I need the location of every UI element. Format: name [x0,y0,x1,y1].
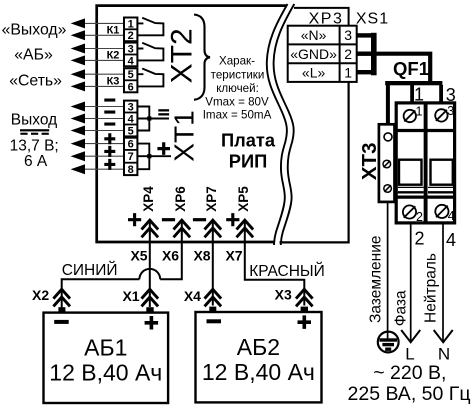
wire XP5 through board edge [244,220,246,244]
svg-text:12 В,40 Ач: 12 В,40 Ач [202,359,315,385]
svg-text:Плата: Плата [221,129,276,150]
wire to terminal output + 6 [84,143,125,145]
connector XP3 table [288,26,357,82]
svg-text:8: 8 [128,164,134,176]
svg-text:Х3: Х3 [275,287,292,303]
svg-text:3: 3 [128,43,134,55]
board break wavy line left [267,4,288,245]
XT3 screw middle [383,160,391,168]
arrow external connection output + 6 [71,139,85,149]
XT2 pair 5-6 [124,68,137,92]
svg-text:ХР4: ХР4 [141,186,156,212]
svg-text:5: 5 [128,125,134,137]
polarity + for XP5 [226,213,239,226]
battery AB1 [44,313,169,403]
connector arrow XP5 [237,220,254,229]
connector arrow X4 [205,289,222,298]
svg-text:К2: К2 [107,50,120,62]
polarity minus for pin 3 [104,99,115,102]
svg-text:ключей:: ключей: [216,82,259,95]
XT3 screw top [384,133,392,141]
wire drop to QF1 pin 1 [410,85,414,102]
wire drop to XT3 [386,85,390,125]
arrow external connection «Выход» NO [71,30,85,40]
wire phase from QF1 pin 2 [410,223,412,341]
svg-text:Imax = 50mA: Imax = 50mA [203,108,272,121]
AB2 plus terminal [301,307,308,313]
svg-text:СИНИЙ: СИНИЙ [62,261,118,279]
svg-text:5: 5 [128,69,134,81]
board Плата РИП outline (left/top/bottom edges) [97,6,287,242]
svg-text:12 В,40 Ач: 12 В,40 Ач [49,359,162,385]
polarity minus for pin 4 [104,111,115,114]
wire bracket pins 6,7,8 common [137,144,171,170]
svg-text:Vmax = 80V: Vmax = 80V [205,95,269,108]
AB1 minus terminal [58,307,65,313]
QF1 pole2 handle [431,160,453,185]
svg-text:Фаза: Фаза [392,290,409,326]
wire to terminal output + 8 [84,168,125,170]
svg-text:XS1: XS1 [356,10,389,27]
board break wavy line right [274,4,295,245]
wire to terminal «Выход» NC [84,22,125,24]
connector arrow X1 [142,289,159,298]
svg-text:X8: X8 [193,247,210,263]
svg-text:Х4: Х4 [184,288,201,304]
ground symbol (earth in circle) [378,332,399,353]
svg-text:К3: К3 [107,76,120,88]
svg-text:L: L [405,345,414,364]
svg-text:3: 3 [344,27,352,43]
svg-text:4: 4 [128,113,135,125]
polarity + for XP4 [128,213,141,226]
svg-text:ХР7: ХР7 [204,186,219,212]
svg-text:~ 220 В,: ~ 220 В, [373,362,446,384]
XT2 pair 1-2 [124,18,137,42]
DC symbol [20,129,49,131]
svg-text:Х2: Х2 [32,287,49,303]
svg-text:X6: X6 [162,247,179,263]
relay contact K1 (switch) [137,18,163,36]
XT1 group 3-5 [124,101,137,137]
svg-text:АБ1: АБ1 [84,335,127,361]
XT3 screw bottom [384,185,392,193]
svg-text:6: 6 [128,139,134,151]
arrow external connection «АБ» NC [71,44,85,54]
board outline right extension top to XP3 [294,8,349,26]
svg-text:К1: К1 [107,25,120,37]
wire bus above QF1 [385,81,442,85]
svg-text:N: N [438,345,450,364]
AB1 plus terminal [146,307,153,313]
polarity − for XP6 [162,218,175,221]
wire ground from XT3 [387,202,389,340]
wire neutral from QF1 pin 4 [442,223,444,341]
svg-text:«L»: «L» [302,65,326,81]
svg-text:X5: X5 [130,247,147,263]
wire to terminal «АБ» NO [84,59,125,61]
svg-text:«Сеть»: «Сеть» [9,72,62,89]
arrow external connection «Выход» NC [71,18,85,28]
polarity minus output (double bar) [158,109,169,111]
board outline right extension bottom to XP3 [280,81,349,242]
XT2 pair 3-4 [124,43,137,67]
svg-text:1: 1 [416,105,423,119]
arrow external connection «АБ» NO [71,55,85,65]
QF1 handle base lines [398,187,454,192]
svg-text:КРАСНЫЙ: КРАСНЫЙ [249,262,325,280]
svg-text:2: 2 [344,46,352,62]
relay contact K2 (switch) [137,43,163,61]
wire to terminal output + 7 [84,155,125,157]
svg-text:«Выход»: «Выход» [2,22,67,39]
svg-text:Нейтраль: Нейтраль [423,253,440,323]
arrow external connection output − 3 [71,102,85,112]
relay contact K3 (switch) [137,69,163,87]
svg-text:1: 1 [128,18,134,30]
wire to terminal «Выход» NO [84,34,125,36]
svg-text:QF1: QF1 [393,58,429,79]
wire red: XP5 to battery AB2 plus (X7 to X3) [245,244,304,306]
battery AB2 [196,312,322,402]
wire XP7 to battery AB2 minus (X4) [212,244,214,306]
wire to terminal output − 4 [84,118,125,120]
svg-text:2: 2 [128,30,134,42]
XS1 pin 3 prong [357,33,372,37]
svg-text:Харак-: Харак- [219,55,255,68]
XT1 group 6-8 [124,138,137,175]
svg-text:6 А: 6 А [24,153,48,170]
junction node pins 3-5 [147,116,151,120]
connector arrow XP6 [174,220,191,229]
polarity plus for pin 6 [104,133,115,144]
arrow N (neutral to mains) [434,330,453,342]
svg-text:«N»: «N» [301,27,327,43]
wire hop over X1 wire [139,269,160,279]
brace for XT2 characteristics [194,15,210,100]
arrow external connection output + 8 [71,164,85,174]
polarity minus for pin 5 [104,123,115,126]
svg-text:4: 4 [448,209,455,223]
wire to terminal output − 5 [84,130,125,132]
svg-text:ХТ3: ХТ3 [358,142,381,180]
svg-text:2: 2 [416,210,423,224]
wire drop to QF1 pin 3 [439,85,443,102]
polarity plus for pin 8 [104,159,115,170]
svg-text:6: 6 [128,81,134,93]
svg-text:ХР6: ХР6 [173,186,188,212]
svg-text:1: 1 [344,65,352,81]
svg-text:ХТ1: ХТ1 [169,110,200,161]
svg-text:13,7 В;: 13,7 В; [10,137,59,154]
QF1 pole1 bottom screw terminal 2 [403,205,416,218]
wire XP4 to battery AB1 plus (X1) [149,244,151,308]
wire blue: XP6 to battery AB1 minus (X6 to X2) [62,244,182,308]
arrow L (phase to mains) [401,330,420,342]
polarity plus for pin 7 [104,146,115,157]
AB2 minus terminal [209,307,216,313]
connector arrow XP7 [205,220,222,229]
svg-text:X7: X7 [225,247,242,263]
QF1 pole1 top screw terminal 1 [404,110,416,122]
svg-text:7: 7 [128,151,134,163]
wire XP4 through board edge [149,220,151,244]
QF1 pole2 top screw terminal 3 [435,109,447,121]
svg-text:ХР5: ХР5 [236,186,251,212]
svg-text:АБ2: АБ2 [237,334,280,360]
svg-text:РИП: РИП [229,150,267,171]
arrow external connection «Сеть» NC [71,69,85,79]
svg-text:225 ВА, 50 Гц: 225 ВА, 50 Гц [348,383,471,405]
connector arrow X3 [296,289,313,298]
wire XS1 to QF1 (mains feed) [376,54,430,83]
breaker QF1 body [396,103,454,223]
connector arrow XP4 [142,220,159,229]
junction node pins 6-8 [147,154,151,158]
svg-text:ХТ2: ХТ2 [166,28,199,83]
svg-text:4: 4 [446,230,456,250]
wire bracket pins 3,4,5 common [137,107,169,131]
QF1 pole1 handle [399,160,422,185]
wire XP6 through board edge [181,220,183,244]
svg-text:Заземление: Заземление [368,235,385,323]
wire to terminal «Сеть» NO [84,85,125,87]
wire XP7 through board edge [212,220,214,244]
wire to terminal «Сеть» NC [84,73,125,75]
XS1 pin 1 prong [357,70,372,74]
svg-text:Х1: Х1 [122,288,139,304]
svg-text:3: 3 [447,104,454,118]
arrow external connection «Сеть» NO [71,81,85,91]
connector XS1 body [371,33,377,76]
svg-text:Выход: Выход [11,111,57,128]
svg-text:«АБ»: «АБ» [14,47,53,64]
polarity plus output [157,142,170,155]
svg-text:«GND»: «GND» [290,46,337,62]
QF1 pole2 bottom screw terminal 4 [435,205,448,218]
svg-text:теристики: теристики [211,68,265,81]
terminal strip XT3 [379,124,395,202]
arrow external connection output − 4 [71,114,85,124]
svg-text:3: 3 [128,101,134,113]
XS1 pin 2 prong [357,52,372,56]
polarity − for XP7 [193,218,206,221]
wire to terminal output − 3 [84,106,125,108]
arrow external connection output − 5 [71,126,85,136]
connector arrow X2 [53,289,70,298]
arrow external connection output + 7 [71,151,85,161]
wire to terminal «АБ» NC [84,48,125,50]
svg-text:4: 4 [128,55,135,67]
svg-text:2: 2 [415,229,425,249]
